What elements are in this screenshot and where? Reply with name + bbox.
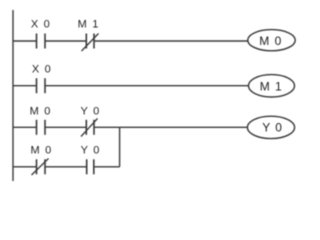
svg-text:M 1: M 1 (78, 18, 100, 30)
svg-text:X 0: X 0 (31, 18, 51, 30)
svg-text:M 0: M 0 (31, 144, 53, 156)
svg-text:X 0: X 0 (32, 64, 52, 76)
branch vertical wire rung4 to rung3 (119, 127, 121, 167)
wire rung4 rail to M0 (13, 166, 37, 168)
contact M0 (NC) rung4 (32, 159, 49, 176)
wire rung2 rail to X0 (13, 85, 37, 87)
contact Y0 (NO) rung4 (87, 159, 94, 174)
left power rail (12, 10, 14, 181)
coil M0 (248, 30, 295, 51)
wire rung1 X0 to M1 (45, 40, 86, 42)
contact M1 (NC) rung1 (82, 34, 99, 52)
coil Y0 (247, 116, 294, 138)
contact X0 (NO) rung2 (37, 78, 46, 93)
wire rung3 rail to M0 (13, 126, 37, 128)
wire rung1 rail to X0 (13, 40, 37, 42)
contact Y0 (NC) rung3 (81, 119, 98, 137)
svg-text:Y 0: Y 0 (262, 120, 283, 134)
svg-text:Y 0: Y 0 (81, 144, 101, 156)
svg-text:M 0: M 0 (259, 34, 282, 48)
coil M1 (249, 75, 295, 97)
wire rung4 Y0 to branch (94, 166, 120, 168)
svg-text:M 1: M 1 (260, 79, 283, 93)
wire rung3 Y0 to coil Y0 (94, 126, 247, 128)
svg-text:Y 0: Y 0 (81, 106, 101, 118)
svg-text:M 0: M 0 (30, 106, 52, 118)
wire rung3 M0 to Y0 (45, 126, 86, 128)
wire rung4 M0 to Y0 (45, 166, 87, 168)
contact X0 (NO) rung1 (37, 34, 46, 49)
wire rung2 X0 to coil M1 (45, 85, 249, 87)
contact M0 (NO) rung3 (37, 120, 46, 135)
wire rung1 M1 to coil M0 (94, 40, 248, 42)
